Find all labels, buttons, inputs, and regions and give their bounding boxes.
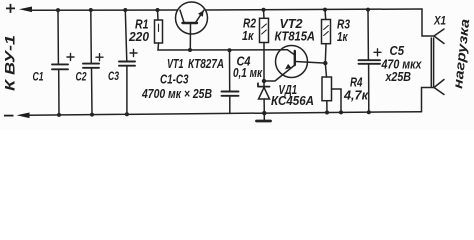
svg-text:0,1 мк: 0,1 мк [233,66,263,80]
C3 plus mark [130,50,137,57]
plus input label [6,4,15,13]
input arrow top [19,7,32,13]
svg-text:VT1: VT1 [167,57,184,71]
transistor VT1 [176,2,208,50]
node R4 bottom [325,111,329,115]
transistor VT2 [264,46,325,82]
input arrow bottom [17,113,30,119]
minus input label [4,115,14,117]
svg-text:C3: C3 [108,69,119,83]
svg-text:4700 мк × 25В: 4700 мк × 25В [141,87,212,101]
node C5 top [366,8,370,12]
C1 plus mark [67,54,74,61]
svg-text:C1-C3: C1-C3 [160,73,189,87]
capacitor C2 [83,10,99,115]
svg-text:220: 220 [128,30,149,44]
svg-text:х25В: х25В [385,70,411,84]
node C1 bottom [57,113,61,117]
capacitor C5 [359,10,381,113]
node C2 top [89,8,93,12]
wire top rail input segment [30,9,177,11]
connector X1 pin 2 [422,80,445,112]
VT1 emitter arrow [198,10,204,16]
svg-text:КС456А: КС456А [271,94,314,108]
resistor R3 [322,10,331,64]
R4 tap wire [332,89,342,112]
node C1 top [56,8,60,12]
node base-C4 junction [228,48,232,52]
node R3-R4-base junction [323,61,327,65]
node C2 bottom [90,113,94,117]
wire top rail output segment [206,9,422,10]
node R2 top [262,8,266,12]
resistor R2 [260,10,269,81]
zener diode VD1 [258,81,270,113]
node base-R1 junction at VT1 [188,48,192,52]
svg-text:1к: 1к [337,30,348,44]
svg-text:1к: 1к [242,29,254,43]
node C5 bottom [367,110,371,114]
VT2 emitter arrow [285,64,291,70]
chassis ground [257,113,271,121]
resistor R4 [322,63,332,112]
node R3 top [323,8,327,12]
wire bottom rail [28,112,422,116]
C5 plus mark [374,49,381,56]
capacitor C3 [119,10,135,114]
svg-text:4,7к: 4,7к [343,89,369,103]
svg-text:X1: X1 [433,14,446,28]
node R4 tap bottom [339,110,343,114]
node VD1 top (zener cathode junction) [262,79,266,83]
resistor R1 [155,10,163,50]
wire VT1 base rail [158,49,288,51]
svg-text:КТ815А: КТ815А [275,30,316,44]
svg-text:C1: C1 [33,70,44,84]
node VD1 bottom [262,111,266,115]
svg-text:R4: R4 [350,76,363,90]
connector X1 pin 1 [422,9,444,44]
svg-text:КТ827А: КТ827А [188,57,224,71]
connector X1 body [431,38,433,87]
svg-text:C5: C5 [390,44,405,58]
node R1 top [156,8,160,12]
svg-text:C2: C2 [76,69,87,83]
node C3 top [123,8,127,12]
capacitor C1 [52,10,68,115]
svg-text:К ВУ-1: К ВУ-1 [2,35,18,91]
node C3 bottom [125,112,129,116]
capacitor C4 [222,50,239,113]
C2 plus mark [96,54,103,61]
